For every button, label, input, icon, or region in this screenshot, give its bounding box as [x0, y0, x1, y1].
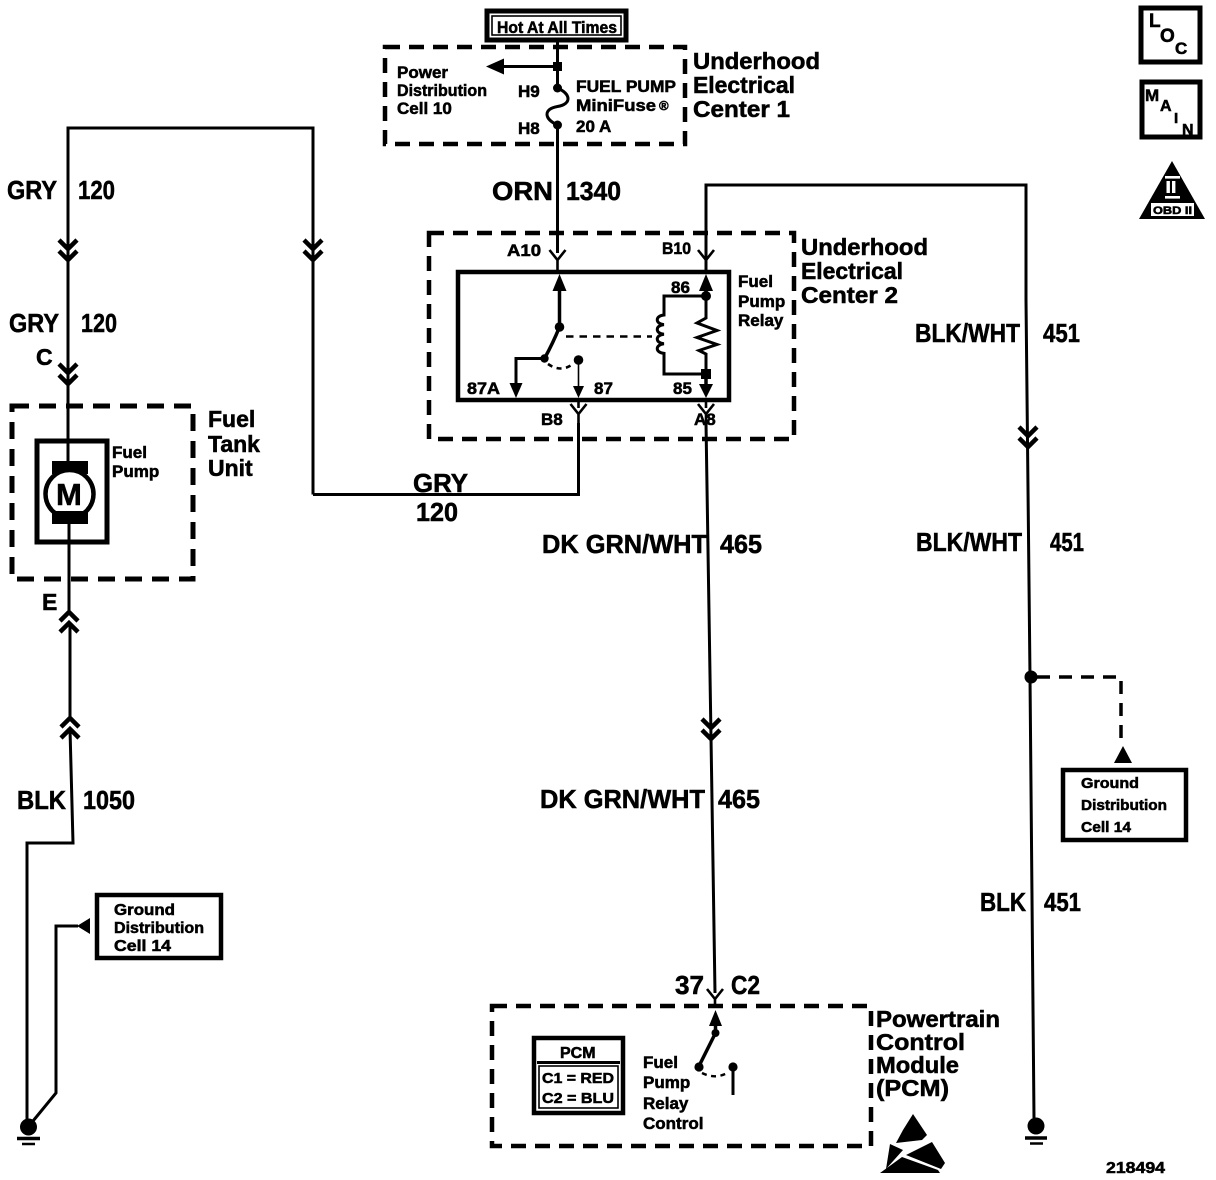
wire label GRY 120 (middle)	[413, 468, 468, 527]
relay coil arrow at 86	[699, 274, 713, 291]
wire label GRY 120 (lower left)	[9, 308, 117, 338]
svg-text:86: 86	[671, 278, 690, 297]
ESD sensitive device symbol (upper triangle)	[896, 1114, 927, 1143]
Underhood Electrical Center 2 dashed box	[429, 233, 794, 439]
svg-text:BLK: BLK	[980, 887, 1026, 917]
terminal H9 dot	[553, 84, 562, 93]
connector B10 Y symbol	[698, 250, 714, 272]
wire: top right horizontal bridge	[706, 185, 1026, 300]
svg-text:Distribution: Distribution	[397, 81, 487, 100]
title Underhood Electrical Center 1	[693, 48, 820, 122]
Underhood Electrical Center 1 dashed box	[385, 47, 685, 144]
wire label ORN 1340	[492, 176, 621, 206]
text Ground Distribution Cell 14 (right)	[1081, 775, 1167, 836]
relay switch common arrow (from A10)	[553, 274, 567, 291]
reference arrowhead into Ground Distribution (right)	[1114, 746, 1132, 763]
wire label BLK/WHT 451 (lower)	[916, 527, 1084, 557]
wire B8 stub below relay	[577, 400, 580, 408]
inline connector chevrons on GRY branch vertical	[304, 240, 322, 260]
svg-text:Underhood: Underhood	[693, 48, 820, 74]
svg-text:120: 120	[78, 175, 115, 205]
svg-text:1340: 1340	[566, 176, 621, 206]
relay contact 87 node	[574, 355, 584, 365]
svg-text:Underhood: Underhood	[801, 234, 928, 260]
svg-text:C: C	[36, 344, 53, 370]
label Fuel Pump (tank)	[112, 443, 159, 481]
wire: left GRY vertical to fuel tank	[67, 128, 70, 462]
fuel pump inner solid box	[37, 441, 107, 542]
svg-text:85: 85	[673, 379, 692, 398]
arrow into pin 85	[699, 384, 713, 398]
wire BLK 1050 lower segment with jog to ground	[27, 729, 73, 1119]
Ground Distribution Cell 14 box (right)	[1063, 770, 1186, 840]
PCM second contact stub	[732, 1070, 735, 1095]
arrow into pin 87	[573, 386, 584, 398]
PCM switch kink node	[712, 1029, 720, 1037]
svg-text:®: ®	[659, 98, 669, 113]
arrowhead to Power Distribution	[486, 59, 504, 75]
PCM identification box	[534, 1038, 623, 1113]
fuse FUEL PUMP MiniFuse 20 A (S-curve)	[547, 88, 568, 125]
svg-text:GRY: GRY	[413, 468, 468, 498]
svg-text:87A: 87A	[467, 379, 500, 398]
inline connector chevrons on BLK wire (pointing up)	[61, 718, 79, 738]
ground symbol (bottom right)	[1025, 1118, 1047, 1144]
svg-text:FUEL PUMP: FUEL PUMP	[576, 77, 676, 96]
relay switch blade end node	[540, 354, 548, 362]
dashed throw arc to 87 contact	[548, 364, 573, 369]
svg-text:BLK/WHT: BLK/WHT	[916, 527, 1022, 557]
terminal H8 dot	[553, 121, 562, 130]
ESD sensitive device symbol (lower triangle with hand)	[880, 1142, 945, 1173]
junction node to ground distribution	[1025, 671, 1038, 684]
motor M bottom brush cap	[52, 511, 88, 524]
wire label GRY 120 (upper left)	[7, 175, 115, 205]
svg-text:87: 87	[594, 379, 613, 398]
svg-text:20 A: 20 A	[576, 117, 611, 136]
svg-text:Electrical: Electrical	[693, 72, 795, 98]
label Fuel Pump Relay	[738, 272, 785, 330]
svg-text:451: 451	[1044, 887, 1081, 917]
dashed reference wire to Ground Distribution (right)	[1037, 677, 1121, 742]
svg-text:Fuel: Fuel	[643, 1053, 678, 1072]
fuse value label FUEL PUMP MiniFuse (R) 20 A	[576, 77, 676, 136]
OBD II triangle icon	[1139, 161, 1205, 219]
Ground Distribution Cell 14 box (left)	[97, 895, 221, 958]
PCM dashed throw arc	[702, 1072, 729, 1076]
svg-text:I: I	[1174, 110, 1178, 127]
svg-text:DK GRN/WHT: DK GRN/WHT	[542, 529, 707, 559]
PCM second contact node	[728, 1062, 737, 1071]
svg-text:Center 2: Center 2	[801, 282, 898, 308]
connector A8 Y symbol	[698, 404, 714, 425]
wire label DK GRN/WHT 465 (upper)	[542, 529, 762, 559]
wire: branch to Power Distribution	[500, 65, 560, 68]
svg-text:GRY: GRY	[9, 308, 59, 338]
coil top node	[701, 291, 711, 301]
wire label DK GRN/WHT 465 (lower)	[540, 784, 760, 814]
wire from motor to connector E	[68, 524, 71, 614]
svg-text:C2 = BLU: C2 = BLU	[542, 1090, 614, 1107]
svg-text:465: 465	[718, 784, 760, 814]
svg-text:465: 465	[720, 529, 762, 559]
wire: GRY branch vertical at x=313	[312, 128, 315, 495]
svg-text:C2: C2	[731, 970, 760, 1000]
svg-text:Distribution: Distribution	[114, 920, 204, 937]
title Powertrain Control Module (PCM)	[876, 1006, 1000, 1101]
svg-text:Cell 14: Cell 14	[1081, 819, 1132, 836]
svg-text:Power: Power	[397, 63, 448, 82]
svg-text:OBD II: OBD II	[1153, 205, 1192, 217]
connector C chevrons	[59, 364, 77, 384]
wire A8 stub below relay	[705, 400, 708, 408]
PCM switch blade	[699, 1033, 716, 1066]
wire label BLK/WHT 451 (upper)	[915, 318, 1080, 348]
inline connector chevrons on left GRY wire	[59, 240, 77, 260]
wire label BLK 1050	[17, 785, 135, 815]
svg-text:GRY: GRY	[7, 175, 57, 205]
Fuel Tank Unit dashed box	[12, 406, 193, 579]
svg-text:Unit: Unit	[208, 455, 253, 481]
relay resistor (zigzag) in parallel	[697, 296, 717, 374]
connector E chevrons (pointing up)	[60, 612, 78, 632]
relay wire to 87	[578, 360, 580, 388]
svg-text:Relay: Relay	[738, 311, 784, 330]
svg-text:Fuel: Fuel	[112, 443, 147, 462]
connector B8 Y symbol	[571, 404, 587, 425]
PCM switch pivot node	[694, 1062, 703, 1071]
svg-text:Relay: Relay	[643, 1094, 689, 1113]
wire ORN 1340 from fuse H8 down to relay A10	[556, 125, 559, 253]
svg-text:Electrical: Electrical	[801, 258, 903, 284]
svg-text:BLK/WHT: BLK/WHT	[915, 318, 1020, 348]
svg-text:BLK: BLK	[17, 785, 66, 815]
wire BLK 1050 from E down	[69, 623, 72, 718]
PCM driver arrow (to pin 37)	[709, 1010, 722, 1026]
relay switch blade	[545, 327, 560, 359]
svg-text:Tank: Tank	[208, 431, 260, 457]
svg-text:C1 = RED: C1 = RED	[542, 1070, 614, 1087]
relay coil (inductor loop)	[657, 296, 706, 374]
svg-text:Pump: Pump	[112, 462, 159, 481]
Powertrain Control Module dashed box	[492, 1006, 871, 1146]
svg-text:Distribution: Distribution	[1081, 797, 1167, 814]
motor M circle	[46, 470, 94, 518]
svg-text:A: A	[1160, 98, 1172, 115]
svg-text:MiniFuse: MiniFuse	[576, 96, 656, 115]
wire GRY 120 from B8 to fuel tank branch	[313, 423, 579, 495]
relay wire to 85	[704, 374, 708, 388]
svg-text:Pump: Pump	[738, 292, 785, 311]
svg-text:218494: 218494	[1106, 1160, 1165, 1177]
relay switch pivot node	[555, 322, 565, 332]
text Power Distribution Cell 10	[397, 63, 487, 118]
title Underhood Electrical Center 2	[801, 234, 928, 308]
svg-text:451: 451	[1043, 318, 1080, 348]
svg-text:Fuel: Fuel	[738, 272, 773, 291]
svg-text:Cell 10: Cell 10	[397, 99, 452, 118]
connector 37/C2 Y symbol	[707, 989, 723, 1008]
inline connector chevrons on BLK/WHT wire	[1019, 427, 1037, 447]
svg-text:Ground: Ground	[114, 902, 175, 919]
relay actuation dashed link	[566, 335, 652, 338]
svg-text:451: 451	[1050, 527, 1084, 557]
svg-text:Center 1: Center 1	[693, 96, 790, 122]
fuel pump relay solid box	[458, 272, 729, 400]
arrow into pin 87A	[510, 383, 523, 398]
wire from ground up to Ground Distribution reference	[33, 926, 78, 1121]
ground symbol G107 (left)	[17, 1119, 40, 1145]
junction node at fuse feed	[553, 62, 562, 71]
svg-text:(PCM): (PCM)	[876, 1075, 949, 1101]
connector A10 Y symbol	[550, 250, 566, 272]
title Fuel Tank Unit	[208, 406, 260, 481]
wire: feed from Hot At All Times into fuse	[556, 40, 559, 88]
svg-text:M: M	[1145, 86, 1159, 105]
wire: top-left GRY branch horizontal	[67, 127, 315, 130]
svg-text:H9: H9	[518, 82, 540, 101]
svg-text:Fuel: Fuel	[208, 406, 255, 432]
wire label BLK 451 (bottom right)	[980, 887, 1081, 917]
svg-text:C: C	[1175, 39, 1187, 58]
label Fuel Pump Relay Control	[643, 1053, 703, 1133]
coil bottom node	[701, 369, 711, 379]
svg-text:DK GRN/WHT: DK GRN/WHT	[540, 784, 705, 814]
svg-text:N: N	[1182, 122, 1194, 139]
svg-text:E: E	[42, 589, 57, 615]
locator reference icon MAIN	[1142, 82, 1200, 139]
svg-text:120: 120	[416, 497, 458, 527]
wire DK GRN/WHT 465 from A8 to PCM	[706, 423, 715, 993]
motor M top brush cap	[52, 461, 88, 474]
reference arrowhead into Ground Distribution (left)	[77, 918, 90, 934]
wire BLK/WHT 451 right vertical	[1026, 300, 1034, 1118]
locator reference icon LOC	[1141, 8, 1200, 62]
svg-text:A10: A10	[507, 241, 541, 260]
svg-text:B10: B10	[662, 239, 691, 258]
svg-text:Pump: Pump	[643, 1073, 690, 1092]
svg-text:Control: Control	[643, 1114, 703, 1133]
power feed box "Hot At All Times"	[487, 11, 626, 40]
svg-text:Ground: Ground	[1081, 775, 1139, 792]
svg-text:120: 120	[81, 308, 117, 338]
inline connector chevrons on DK GRN/WHT wire	[702, 719, 720, 739]
svg-text:M: M	[56, 477, 82, 512]
svg-text:Cell 14: Cell 14	[114, 938, 171, 955]
text Ground Distribution Cell 14 (left)	[114, 902, 204, 955]
relay wire to 87A	[516, 359, 545, 387]
svg-text:ORN: ORN	[492, 176, 553, 206]
svg-text:B8: B8	[541, 410, 563, 429]
svg-text:H8: H8	[518, 119, 540, 138]
svg-text:Hot At All Times: Hot At All Times	[497, 18, 617, 37]
svg-text:1050: 1050	[83, 785, 135, 815]
svg-text:37: 37	[675, 970, 704, 1000]
svg-text:O: O	[1160, 26, 1175, 47]
svg-text:PCM: PCM	[560, 1045, 596, 1062]
